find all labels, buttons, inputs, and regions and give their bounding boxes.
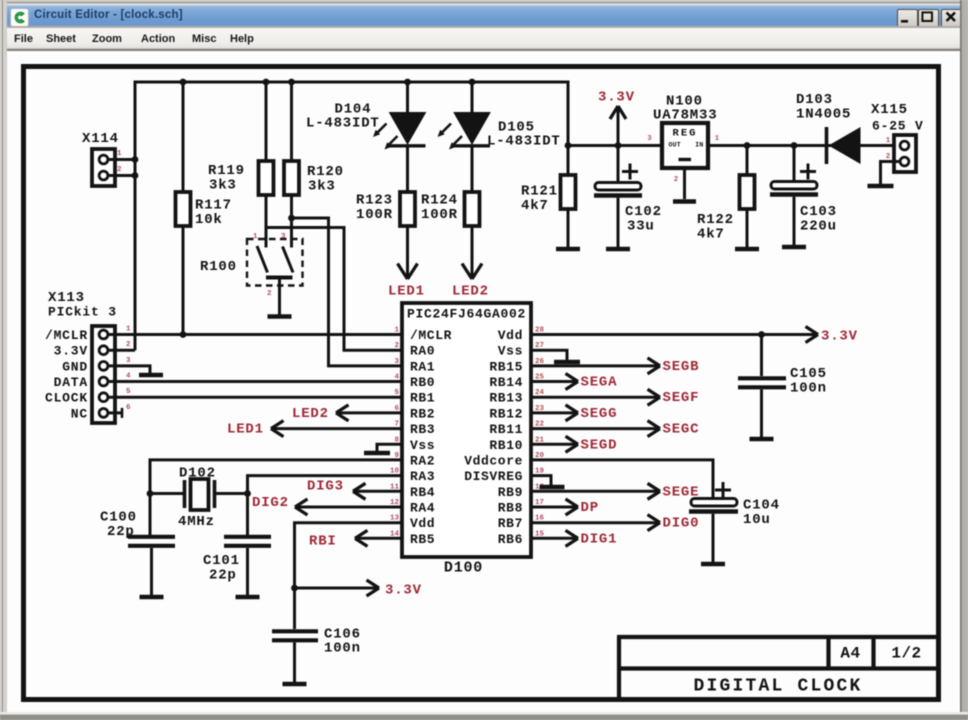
wire RA3 to crystal right / C101 bbox=[248, 476, 403, 536]
svg-text:DP: DP bbox=[581, 500, 599, 516]
svg-text:R100: R100 bbox=[200, 259, 237, 275]
ground below C106 bbox=[283, 682, 307, 687]
switch R100 contacts bbox=[257, 246, 293, 273]
svg-text:DATA: DATA bbox=[54, 375, 88, 390]
wire X115 pin2 to ground bbox=[881, 162, 900, 185]
junction X114 pin2 / rail drop bbox=[132, 172, 139, 179]
svg-text:33u: 33u bbox=[627, 219, 655, 235]
net flag arrow DP (right) bbox=[566, 499, 579, 515]
wire RB9 to SEGE flag bbox=[531, 490, 660, 493]
svg-text:5: 5 bbox=[394, 389, 399, 397]
ground below C104 bbox=[701, 562, 725, 567]
svg-text:RB0: RB0 bbox=[410, 375, 435, 390]
connector X113 PICkit 3 bbox=[92, 326, 115, 423]
svg-text:SEGA: SEGA bbox=[581, 375, 618, 391]
svg-text:RB12: RB12 bbox=[489, 406, 523, 421]
wire X113.3 GND bbox=[108, 366, 150, 373]
svg-text:RB4: RB4 bbox=[410, 485, 435, 500]
net flag arrow SEGF (right) bbox=[648, 389, 661, 405]
wire Vdd pin13 down to C106 bbox=[295, 523, 403, 629]
net flag arrow DIG3 (left) bbox=[353, 483, 366, 499]
wire RB10 to SEGD flag bbox=[531, 443, 578, 446]
net flag arrow 3.3V (right, top) bbox=[806, 327, 819, 343]
svg-text:2: 2 bbox=[117, 166, 122, 174]
crystal D102 bbox=[185, 480, 215, 508]
ground below N100 bbox=[673, 199, 696, 204]
ground below C101 bbox=[236, 595, 260, 600]
wire RA1 to switch pin3 net bbox=[292, 218, 403, 366]
svg-text:RB2: RB2 bbox=[410, 406, 435, 421]
svg-text:100n: 100n bbox=[790, 381, 827, 397]
diode D103 bbox=[825, 127, 829, 164]
svg-text:DIG3: DIG3 bbox=[307, 478, 344, 494]
svg-text:Vddcore: Vddcore bbox=[464, 453, 523, 468]
svg-text:220u: 220u bbox=[800, 219, 837, 235]
ground below C103 bbox=[782, 245, 806, 250]
svg-text:3: 3 bbox=[126, 357, 131, 365]
svg-text:Vdd: Vdd bbox=[410, 516, 435, 531]
capacitor C106 bbox=[272, 631, 318, 640]
svg-text:RB13: RB13 bbox=[489, 391, 523, 406]
svg-text:1: 1 bbox=[715, 135, 719, 143]
wire RB4 to DIG3 flag bbox=[353, 490, 402, 493]
svg-text:4: 4 bbox=[394, 374, 399, 382]
svg-text:100R: 100R bbox=[421, 207, 458, 223]
wire node to R121 bbox=[567, 146, 570, 176]
wire Vddcore to C104 bbox=[531, 460, 713, 498]
capacitor C101 bbox=[224, 537, 271, 546]
svg-text:22p: 22p bbox=[209, 568, 237, 584]
wire RB7 to DIG0 flag bbox=[531, 521, 660, 524]
wire crystal left bbox=[150, 492, 183, 495]
LED D105 bbox=[454, 113, 490, 145]
LED D105 emission arrows bbox=[442, 124, 463, 146]
menu bottom border bbox=[7, 49, 960, 51]
LED D104 emission arrows bbox=[377, 124, 398, 146]
wire C105 top bbox=[760, 335, 763, 377]
svg-text:4k7: 4k7 bbox=[521, 198, 549, 214]
junction input node / C103 bbox=[791, 142, 798, 149]
capacitor C100 bbox=[128, 537, 175, 546]
resistor R124 bbox=[465, 192, 480, 226]
ground below R121 bbox=[556, 247, 580, 252]
wire RB14 to SEGA flag bbox=[531, 380, 578, 383]
wire C101 to ground bbox=[246, 548, 249, 595]
svg-text:3k3: 3k3 bbox=[308, 179, 336, 195]
svg-text:3k3: 3k3 bbox=[209, 178, 237, 194]
svg-text:DIG2: DIG2 bbox=[252, 495, 289, 511]
svg-text:1: 1 bbox=[126, 326, 131, 334]
junction X114 pin1 / rail drop bbox=[132, 156, 139, 163]
junction node / C102 bbox=[615, 142, 622, 149]
svg-text:3.3V: 3.3V bbox=[598, 90, 635, 106]
svg-text:3.3V: 3.3V bbox=[54, 344, 88, 359]
resistor R123 bbox=[400, 192, 415, 226]
svg-text:RB6: RB6 bbox=[498, 532, 523, 547]
junction 3.3V node / R121 bbox=[565, 142, 572, 149]
junction top rail / R119 bbox=[263, 79, 270, 86]
wire node to C103 bbox=[793, 146, 796, 182]
wire RB3 to LED1 flag bbox=[271, 427, 402, 430]
svg-text:RA4: RA4 bbox=[410, 500, 435, 515]
net flag arrow DIG0 (right) bbox=[648, 515, 661, 531]
ground below C105 bbox=[750, 437, 774, 442]
window bottom border bbox=[0, 712, 968, 720]
svg-text:LED2: LED2 bbox=[292, 406, 329, 422]
junction R117 / MCLR wire bbox=[180, 331, 187, 338]
wire X114 pin1 to rail bbox=[108, 158, 135, 161]
voltage regulator N100 UA78M33 bbox=[662, 123, 708, 168]
svg-text:1: 1 bbox=[253, 233, 258, 241]
svg-text:6: 6 bbox=[126, 404, 131, 412]
junction top rail / R120 bbox=[288, 79, 295, 86]
wire D105 to R124 bbox=[471, 147, 474, 192]
svg-text:Vss: Vss bbox=[410, 438, 435, 453]
ground at Vss pin27 bbox=[554, 360, 580, 365]
net flag arrow DIG2 (left) bbox=[295, 499, 308, 515]
svg-text:22p: 22p bbox=[107, 524, 135, 540]
svg-text:OUT: OUT bbox=[669, 142, 681, 149]
svg-text:NC: NC bbox=[71, 406, 88, 421]
wire R122 to ground bbox=[746, 208, 749, 247]
svg-text:X114: X114 bbox=[82, 131, 119, 147]
resistor R120 bbox=[284, 161, 299, 195]
svg-text:RB9: RB9 bbox=[498, 485, 523, 500]
junction Vdd branch / 3.3V flag bbox=[291, 585, 298, 592]
ground below R100 bbox=[268, 314, 292, 319]
junction R120 wire / RA1 net bbox=[288, 215, 295, 222]
wire R117 to /MCLR net bbox=[182, 226, 185, 335]
svg-text:RA3: RA3 bbox=[410, 469, 435, 484]
wire RB15 to SEGB flag bbox=[531, 364, 660, 367]
svg-text:3: 3 bbox=[647, 135, 651, 143]
svg-text:/MCLR: /MCLR bbox=[45, 328, 88, 343]
window title bbox=[34, 9, 183, 21]
wire rail to R117 bbox=[182, 82, 185, 192]
svg-text:4: 4 bbox=[126, 373, 131, 381]
switch R100 dashed outline bbox=[247, 239, 303, 286]
wire RA4 to DIG2 flag bbox=[295, 506, 402, 509]
svg-text:4MHz: 4MHz bbox=[178, 514, 215, 530]
window title bar bbox=[7, 5, 960, 27]
svg-text:RA0: RA0 bbox=[410, 344, 435, 359]
svg-text:GND: GND bbox=[62, 359, 88, 374]
window left border bbox=[0, 0, 7, 720]
svg-text:1N4005: 1N4005 bbox=[796, 107, 851, 123]
svg-text:6-25 V: 6-25 V bbox=[872, 119, 924, 134]
svg-text:3.3V: 3.3V bbox=[821, 329, 858, 345]
net flag arrow 3.3V (right, lower) bbox=[367, 580, 380, 596]
junction top rail / D105 bbox=[469, 79, 476, 86]
wire crystal right bbox=[216, 492, 248, 495]
svg-text:DIG1: DIG1 bbox=[581, 531, 618, 547]
svg-text:RB3: RB3 bbox=[410, 422, 435, 437]
wire R123 to LED1 flag bbox=[406, 226, 409, 278]
wire Vdd pin28 to 3.3V flag bbox=[531, 333, 762, 336]
net flag arrow SEGB (right) bbox=[648, 358, 661, 374]
wire switch pin2 to ground bbox=[278, 279, 281, 315]
svg-text:RBI: RBI bbox=[309, 533, 337, 549]
svg-text:D102: D102 bbox=[179, 466, 216, 482]
wire rail to D104 bbox=[406, 82, 409, 113]
svg-text:DIGITAL CLOCK: DIGITAL CLOCK bbox=[693, 677, 862, 697]
svg-text:LED2: LED2 bbox=[452, 284, 489, 300]
wire R119 to switch pin1 bbox=[265, 194, 268, 248]
svg-text:10u: 10u bbox=[743, 512, 771, 528]
wire RB13 to SEGF flag bbox=[531, 396, 660, 399]
application icon bbox=[10, 8, 29, 27]
wire RB6 to DIG1 flag bbox=[531, 537, 578, 540]
svg-text:RB14: RB14 bbox=[489, 375, 523, 390]
NC stub tick bbox=[121, 408, 124, 418]
connector X115 bbox=[894, 135, 916, 172]
junction top rail / D104 bbox=[404, 79, 411, 86]
net flag arrow SEGE (right) bbox=[648, 483, 661, 499]
svg-text:D100: D100 bbox=[444, 560, 483, 577]
wire node to R122 bbox=[746, 146, 749, 176]
resistor R122 bbox=[740, 175, 755, 209]
svg-text:1: 1 bbox=[117, 150, 122, 158]
wire N100 gnd pin bbox=[683, 168, 686, 199]
resistor R117 bbox=[176, 192, 191, 226]
svg-text:2: 2 bbox=[126, 341, 131, 349]
capacitor C104 (electrolytic) bbox=[691, 499, 737, 507]
net flag arrow LED2 (down) bbox=[462, 264, 482, 280]
wire top 3.3V rail from X114 down to regulator node bbox=[135, 82, 568, 350]
microcontroller U/D100 PIC24FJ64GA002 bbox=[402, 303, 531, 557]
svg-text:LED1: LED1 bbox=[388, 284, 425, 300]
net flag arrow LED1 (left) bbox=[271, 421, 284, 437]
svg-text:100n: 100n bbox=[324, 641, 361, 657]
ground below C102 bbox=[606, 247, 630, 252]
svg-text:5: 5 bbox=[126, 388, 131, 396]
svg-text:2: 2 bbox=[267, 290, 272, 298]
svg-text:REG: REG bbox=[673, 128, 698, 140]
wire R120 to switch pin3 bbox=[290, 194, 293, 248]
svg-text:SEGD: SEGD bbox=[581, 437, 618, 453]
wire X114 pin2 to 3.3V drop bbox=[108, 174, 135, 177]
wire R121 to ground bbox=[567, 208, 570, 247]
LED D104 bbox=[390, 113, 426, 145]
net flag arrow DIG1 (right) bbox=[566, 530, 579, 546]
wire rail to R119 bbox=[265, 82, 268, 161]
wire to 3.3V arrow right bbox=[762, 333, 818, 336]
connector X114 bbox=[92, 149, 115, 186]
net flag arrow SEGA (right) bbox=[566, 374, 579, 390]
svg-text:RB1: RB1 bbox=[410, 391, 435, 406]
resistor R121 bbox=[561, 175, 576, 209]
svg-text:2: 2 bbox=[674, 176, 678, 184]
svg-text:LED1: LED1 bbox=[227, 422, 264, 438]
capacitor C102 (electrolytic) bbox=[595, 183, 641, 191]
wire RB5 to RBI flag bbox=[355, 537, 402, 540]
svg-text:RB7: RB7 bbox=[498, 516, 523, 531]
resistor R119 bbox=[259, 161, 274, 195]
svg-text:RA1: RA1 bbox=[410, 359, 435, 374]
svg-text:RB15: RB15 bbox=[489, 359, 523, 374]
svg-text:3: 3 bbox=[281, 233, 286, 241]
wire rail to D105 bbox=[471, 82, 474, 113]
wire C105 to ground bbox=[760, 390, 763, 438]
wire to 3.3V flag lower bbox=[295, 587, 379, 590]
svg-text:10k: 10k bbox=[195, 212, 223, 228]
svg-text:A4: A4 bbox=[840, 645, 860, 663]
svg-text:RB5: RB5 bbox=[410, 532, 435, 547]
wire Vss pin27 to ground bbox=[531, 350, 567, 360]
svg-text:Vss: Vss bbox=[498, 344, 523, 359]
svg-text:/MCLR: /MCLR bbox=[410, 328, 452, 343]
wire node to C102 bbox=[617, 146, 620, 183]
wire D104 to R123 bbox=[406, 147, 409, 192]
svg-text:DIG0: DIG0 bbox=[663, 516, 700, 532]
ground below C100 bbox=[140, 595, 164, 600]
junction crystal left / C100 bbox=[147, 490, 154, 497]
wire regulator input node bbox=[708, 144, 895, 147]
wire 3.3V symbol stem bbox=[617, 107, 620, 146]
wire rail to R120 bbox=[290, 82, 293, 161]
svg-text:RB10: RB10 bbox=[489, 438, 523, 453]
wire C106 to ground bbox=[293, 643, 296, 683]
wire X113.6 NC stub bbox=[108, 411, 122, 414]
svg-text:1: 1 bbox=[394, 327, 399, 335]
svg-text:IN: IN bbox=[695, 142, 703, 149]
junction crystal right / C101 bbox=[244, 490, 251, 497]
N100 ground pin mark bbox=[679, 158, 692, 161]
svg-text:RB8: RB8 bbox=[498, 500, 523, 515]
wire C100 to ground bbox=[150, 548, 153, 595]
capacitor C103 (electrolytic) bbox=[771, 182, 817, 190]
svg-text:1/2: 1/2 bbox=[891, 645, 921, 663]
net flag arrow SEGG (right) bbox=[566, 405, 579, 421]
wire C102 to ground bbox=[617, 198, 620, 247]
wire R124 to LED2 flag bbox=[471, 226, 474, 278]
title block bbox=[617, 637, 938, 700]
window top border bbox=[0, 0, 968, 5]
wire Vss pin8 to ground bbox=[377, 444, 402, 451]
svg-text:PIC24FJ64GA002: PIC24FJ64GA002 bbox=[407, 307, 526, 322]
wire RB12 to SEGG flag bbox=[531, 411, 578, 414]
svg-text:Vdd: Vdd bbox=[498, 328, 523, 343]
svg-text:RA2: RA2 bbox=[410, 453, 435, 468]
maximize button bbox=[918, 9, 939, 28]
window right border bbox=[960, 0, 968, 720]
ground X113 GND pin bbox=[139, 373, 163, 378]
svg-text:PICkit 3: PICkit 3 bbox=[48, 305, 117, 320]
ground at Vss pin8 bbox=[364, 451, 390, 456]
wire RB11 to SEGC flag bbox=[531, 427, 660, 430]
net flag arrow SEGD (right) bbox=[566, 436, 579, 452]
ground below X115 bbox=[868, 184, 894, 189]
close button bbox=[941, 9, 962, 28]
net flag arrow RBI (left) bbox=[355, 530, 368, 546]
ground below R122 bbox=[735, 247, 759, 252]
capacitor C105 bbox=[738, 378, 786, 387]
minimize button bbox=[897, 9, 918, 28]
wire X113.2 3.3V to X114 drop bbox=[108, 349, 135, 352]
ground at DISVREG bbox=[540, 485, 565, 490]
svg-text:2: 2 bbox=[886, 153, 891, 161]
svg-text:1: 1 bbox=[886, 137, 891, 145]
net flag arrow LED1 (down) bbox=[398, 264, 418, 280]
wire RA2 to crystal left / C100 bbox=[150, 460, 402, 536]
wire regulator output node bbox=[568, 144, 662, 147]
svg-text:4k7: 4k7 bbox=[697, 227, 725, 243]
wire CLOCK X113.5 to MCU RB1 bbox=[108, 396, 402, 399]
wire DISVREG to ground bbox=[531, 476, 551, 485]
junction input node / R122 bbox=[744, 142, 751, 149]
wire C104 to ground bbox=[712, 514, 715, 562]
svg-text:SEGF: SEGF bbox=[663, 390, 700, 406]
wire RA0 to switch pin1 net bbox=[266, 228, 402, 351]
menu bar bbox=[7, 26, 960, 48]
junction top rail / R117 bbox=[180, 79, 187, 86]
net flag arrow SEGC (right) bbox=[648, 421, 661, 437]
svg-text:RB11: RB11 bbox=[489, 422, 523, 437]
wire RB8 to DP flag bbox=[531, 506, 578, 509]
svg-text:L-483IDT: L-483IDT bbox=[487, 134, 561, 150]
svg-text:X115: X115 bbox=[871, 102, 908, 118]
svg-text:SEGG: SEGG bbox=[581, 406, 618, 422]
wire /MCLR net X113.1 to MCU pin1 bbox=[108, 333, 402, 336]
junction Vdd net / C105 bbox=[758, 331, 765, 338]
svg-text:SEGC: SEGC bbox=[663, 422, 700, 438]
net flag arrow LED2 (left) bbox=[336, 405, 349, 421]
svg-text:SEGB: SEGB bbox=[663, 359, 700, 375]
wire DATA X113.4 to MCU RB0 bbox=[108, 380, 402, 383]
wire RB2 to LED2 flag bbox=[336, 411, 402, 414]
svg-text:L-483IDT: L-483IDT bbox=[306, 116, 380, 132]
svg-text:3.3V: 3.3V bbox=[385, 583, 422, 599]
svg-text:CLOCK: CLOCK bbox=[45, 391, 88, 406]
svg-text:100R: 100R bbox=[356, 207, 393, 223]
wire C103 to ground bbox=[793, 197, 796, 245]
svg-text:DISVREG: DISVREG bbox=[464, 469, 523, 484]
